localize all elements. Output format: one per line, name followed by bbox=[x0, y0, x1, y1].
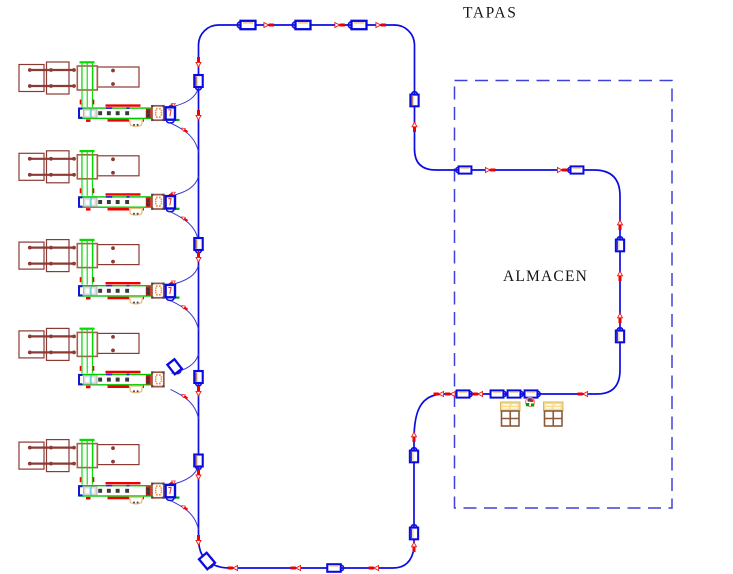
marker icon between pallets bbox=[526, 398, 535, 407]
TRACK bbox=[199, 25, 621, 568]
wire bypass station3 upper bbox=[172, 265, 199, 285]
arrow top-1 bbox=[264, 23, 274, 28]
arrow left vertical 1 bbox=[196, 57, 201, 67]
wire lower-right vertical bbox=[413, 440, 415, 548]
station 5 stop box bbox=[166, 485, 180, 501]
arrow left vertical 3 bbox=[196, 252, 201, 262]
carrier lower-right vertical 2 bbox=[410, 525, 418, 540]
carrier warehouse bottom-1 bbox=[457, 390, 473, 397]
wire bypass station2 lower bbox=[171, 212, 199, 242]
arrow warehouse top-1 bbox=[485, 168, 495, 173]
arrow bypass st5 upper bbox=[168, 479, 176, 485]
wire warehouse bottom-right curve bbox=[597, 370, 620, 394]
arrow bypass st1 lower bbox=[181, 127, 189, 134]
carrier warehouse bottom-4 bbox=[525, 390, 541, 397]
carrier left vertical 3 bbox=[194, 371, 202, 386]
station 5 machine+conveyor bbox=[19, 440, 165, 504]
carrier warehouse top-2 bbox=[568, 166, 584, 173]
wire top-left corner arc bbox=[199, 25, 219, 45]
arrow bottom-2 bbox=[291, 566, 301, 571]
arrow warehouse bottom-2 bbox=[445, 392, 455, 397]
carrier upper-right vertical bbox=[410, 92, 418, 107]
wire bypass station5 upper bbox=[172, 465, 199, 485]
pallet 2 bbox=[544, 402, 564, 426]
wire bypass station1 upper bbox=[172, 88, 199, 108]
arrow bypass st2 lower bbox=[181, 215, 189, 222]
arrow bypass st5 lower bbox=[181, 504, 189, 511]
carrier top-2 bbox=[292, 21, 310, 29]
arrow left vertical 2 bbox=[196, 110, 201, 120]
arrow warehouse right-1 bbox=[618, 220, 623, 230]
arrow bypass st2 upper bbox=[168, 191, 176, 197]
wire bypass station4 upper bbox=[172, 354, 199, 374]
arrow warehouse bottom-3 bbox=[473, 392, 483, 397]
wire warehouse right vertical bbox=[619, 196, 621, 370]
wire bottom-right curve bbox=[393, 548, 414, 568]
wire upper-right vertical bbox=[414, 45, 416, 149]
wire warehouse top-right curve bbox=[594, 170, 620, 196]
wire bypass station3 lower bbox=[171, 301, 199, 331]
station 1 machine+conveyor bbox=[19, 62, 165, 126]
svg-text:TAPAS: TAPAS bbox=[463, 5, 517, 22]
wire warehouse bottom horizontal bbox=[444, 393, 597, 395]
station 4 machine+conveyor bbox=[19, 328, 165, 392]
station 2 machine+conveyor bbox=[19, 151, 165, 215]
carrier lower-right vertical 1 bbox=[410, 448, 418, 463]
arrow warehouse top-2 bbox=[557, 168, 567, 173]
BYPASS CURVES (station sidings) bbox=[171, 88, 199, 531]
carrier left vertical 4 bbox=[194, 455, 202, 470]
arrow bypass st4 lower bbox=[181, 393, 189, 400]
carrier warehouse bottom-3 bbox=[508, 390, 524, 397]
arrow left vertical 4 bbox=[196, 386, 201, 396]
arrow bypass st1 upper bbox=[168, 102, 176, 108]
pallet 1 bbox=[501, 402, 521, 426]
arrow lower-right vertical 1 bbox=[412, 432, 417, 442]
arrow top-3 bbox=[376, 23, 386, 28]
wire bypass station5 lower bbox=[171, 501, 199, 530]
arrow lower-right vertical 2 bbox=[412, 542, 417, 552]
arrow bottom-1 bbox=[228, 566, 238, 571]
arrow bypass st3 lower bbox=[181, 304, 189, 311]
carrier diamond bottom-left corner bbox=[199, 553, 216, 570]
wire bottom horizontal bbox=[230, 567, 393, 569]
carrier warehouse right-1 bbox=[616, 237, 624, 252]
carrier top-1 bbox=[237, 21, 255, 29]
wire bypass station1 lower bbox=[171, 123, 199, 153]
warehouse dashed boundary bbox=[455, 81, 673, 509]
arrow warehouse bottom-4 bbox=[578, 392, 588, 397]
station 3 machine+conveyor bbox=[19, 240, 165, 304]
carrier diamond station4 siding bbox=[167, 359, 183, 375]
carrier top-3 bbox=[348, 21, 366, 29]
station 1 stop box bbox=[166, 107, 180, 123]
wire warehouse top horizontal bbox=[436, 169, 594, 171]
arrow warehouse right-3 bbox=[618, 313, 623, 323]
arrow warehouse bottom-1 bbox=[434, 392, 444, 397]
svg-text:ALMACEN: ALMACEN bbox=[503, 268, 588, 285]
arrow warehouse right-2 bbox=[618, 271, 623, 281]
arrow upper-right vertical bbox=[412, 122, 417, 132]
wire bottom-left curve bbox=[199, 538, 231, 568]
carrier left vertical 2 bbox=[194, 238, 202, 253]
wire bypass station2 upper bbox=[172, 176, 199, 196]
arrow top-2 bbox=[335, 23, 345, 28]
arrow left vertical 6 bbox=[196, 535, 201, 545]
wire curve lower-right to warehouse bottom run bbox=[414, 394, 444, 440]
carrier left vertical 1 bbox=[194, 75, 202, 90]
carrier bottom horizontal bbox=[327, 564, 343, 572]
wire curve into warehouse top run bbox=[415, 149, 437, 170]
arrow left vertical 5 bbox=[196, 470, 201, 480]
station 2 stop box bbox=[166, 196, 180, 212]
wire top horizontal bbox=[219, 24, 396, 26]
wire bypass station4 lower bbox=[171, 389, 199, 419]
arrow bottom-3 bbox=[369, 566, 379, 571]
station 3 stop box bbox=[166, 285, 180, 301]
wire left vertical bbox=[198, 45, 200, 538]
arrow bypass st3 upper bbox=[168, 279, 176, 285]
carrier warehouse right-2 bbox=[616, 328, 624, 343]
wire top-right corner arc bbox=[395, 25, 415, 45]
carrier warehouse top-1 bbox=[456, 166, 472, 173]
carrier warehouse bottom-2 bbox=[491, 390, 507, 397]
